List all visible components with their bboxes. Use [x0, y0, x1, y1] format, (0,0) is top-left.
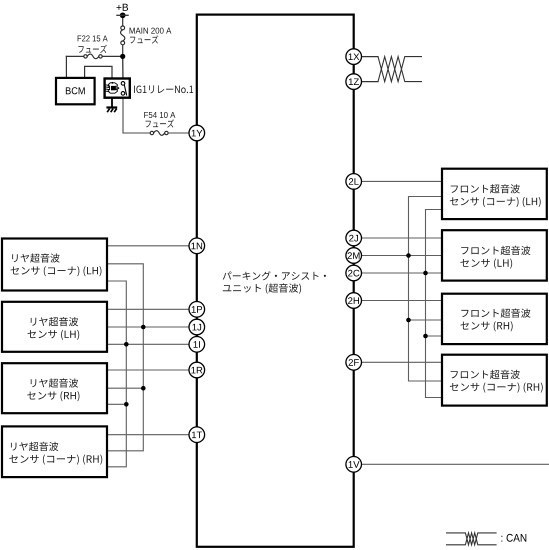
pin 1Y [189, 125, 205, 141]
junction bus C / 1J [141, 325, 146, 330]
wire bus A tap to R3 [409, 319, 443, 321]
parking assist unit (ultrasonic) main box [197, 15, 354, 547]
rear ultrasonic sensor RH box [2, 363, 107, 413]
wire L3 tap to bus C [107, 387, 144, 389]
wire relay coil to ground [111, 94, 113, 108]
front ultrasonic sensor LH box [442, 230, 547, 280]
junction bus D / L3 [124, 402, 129, 407]
rear ultrasonic sensor (corner) LH box [2, 239, 107, 291]
junction bus A / R3 [406, 318, 411, 323]
wire pin 1V CAN line to right edge [354, 463, 549, 465]
fuse F54 10 A [150, 131, 168, 136]
power source +B [116, 4, 128, 16]
title parking assist unit line2 [223, 283, 301, 293]
wire bus A: R1 to R4 via 2M [409, 197, 443, 382]
text front sensor corner RH [451, 370, 520, 379]
fusible link MAIN 200 A [121, 26, 125, 45]
text rear sensor corner RH [11, 442, 58, 451]
wire L2 to pin 1I [107, 343, 189, 345]
junction MAIN/F22/relay [120, 54, 125, 59]
pin 1V [346, 457, 362, 473]
wire L3 signal to pin 1R [107, 369, 189, 371]
text rear sensor corner LH [12, 253, 59, 262]
junction bus B / R3 [423, 334, 428, 339]
BCM box [56, 78, 95, 104]
junction bus A / 2M [406, 253, 411, 258]
text front sensor corner LH [451, 184, 520, 193]
junction bus D / 1I [124, 342, 129, 347]
pin 1N [189, 238, 205, 254]
label fuse kana [78, 45, 106, 53]
wire bus B: R1 to R4 via 2C [426, 210, 443, 398]
front ultrasonic sensor (corner) RH box [442, 355, 547, 406]
wire bus C: L1 to L4 via 1J [108, 264, 144, 451]
wire bus D: L1 to L4 via 1I [108, 281, 127, 467]
front ultrasonic sensor RH box [442, 294, 547, 344]
pin 2J [346, 230, 362, 246]
pin 1X [346, 49, 362, 65]
wire pin 2C to R2 [354, 272, 442, 274]
relay IG1 No.1 box [105, 79, 130, 98]
label MAIN 200 A [130, 28, 172, 34]
wire pin 2L to R1 [354, 180, 442, 182]
wire relay switch out to F54 fuse [123, 95, 150, 133]
wire L3 tap to bus D [107, 403, 127, 405]
pin 1J [189, 319, 205, 335]
pin 1T [189, 427, 205, 443]
wire F54 fuse to pin 1Y [168, 132, 189, 134]
fuse F22 15 A [84, 54, 102, 59]
title parking assist unit line1 [223, 271, 326, 280]
front ultrasonic sensor (corner) LH box [442, 169, 547, 219]
wire pin 2J to R2 [354, 237, 442, 239]
twisted pair CAN lines at 1X/1Z [378, 57, 422, 82]
wire pin 2F to R4 [354, 361, 442, 363]
label IG1 relay No.1 [134, 85, 193, 93]
wire L2 to pin 1J [107, 326, 189, 328]
wire down to BCM [65, 56, 67, 78]
text rear sensor RH [31, 378, 78, 387]
text front sensor LH [461, 246, 530, 255]
wire pin 1Z lead [354, 81, 378, 83]
pin 1R [189, 362, 205, 378]
text front sensor RH [461, 308, 530, 317]
junction bus C / L3 [141, 386, 146, 391]
ground [106, 108, 117, 113]
wire F22 fuse right lead to junction [102, 55, 123, 57]
wire F22 fuse left lead [66, 55, 83, 57]
text rear sensor LH [31, 317, 78, 326]
pin 2F [346, 355, 362, 371]
label F54 10 A [144, 112, 175, 118]
wire pin 2M to R2 [354, 255, 442, 257]
pin 2L [346, 174, 362, 190]
wire L4 signal to pin 1T [108, 434, 190, 436]
pin 2M [346, 248, 362, 264]
wire bus B tap to R3 [426, 335, 443, 337]
wire from +B to MAIN fuse [122, 15, 124, 26]
wire MAIN fuse to junction [122, 45, 124, 57]
label fuse kana [130, 35, 158, 43]
pin 1Z [346, 74, 362, 90]
label : CAN [501, 534, 526, 542]
pin 2C [346, 265, 362, 281]
junction at +B [120, 12, 126, 18]
pin 1P [189, 302, 205, 318]
wire pin 1X lead [354, 56, 378, 58]
rear ultrasonic sensor LH box [2, 302, 107, 352]
CAN legend twisted pair symbol [446, 533, 497, 545]
wire pin 2H to R3 [354, 300, 442, 302]
relay switch contact [121, 82, 127, 96]
relay coil [105, 82, 119, 93]
pin 2H [346, 293, 362, 309]
label BCM [66, 87, 85, 94]
rear ultrasonic sensor (corner) RH box [2, 426, 107, 477]
label F22 15 A [78, 35, 108, 41]
pin 1I [189, 337, 205, 353]
label fuse kana [145, 119, 173, 127]
junction bus B / 2C [423, 271, 428, 276]
wire junction down to relay switch [122, 56, 124, 81]
wire L1 signal to pin 1N [108, 245, 190, 247]
wire L2 signal to pin 1P [107, 308, 189, 310]
wire BCM to relay coil [85, 66, 112, 83]
